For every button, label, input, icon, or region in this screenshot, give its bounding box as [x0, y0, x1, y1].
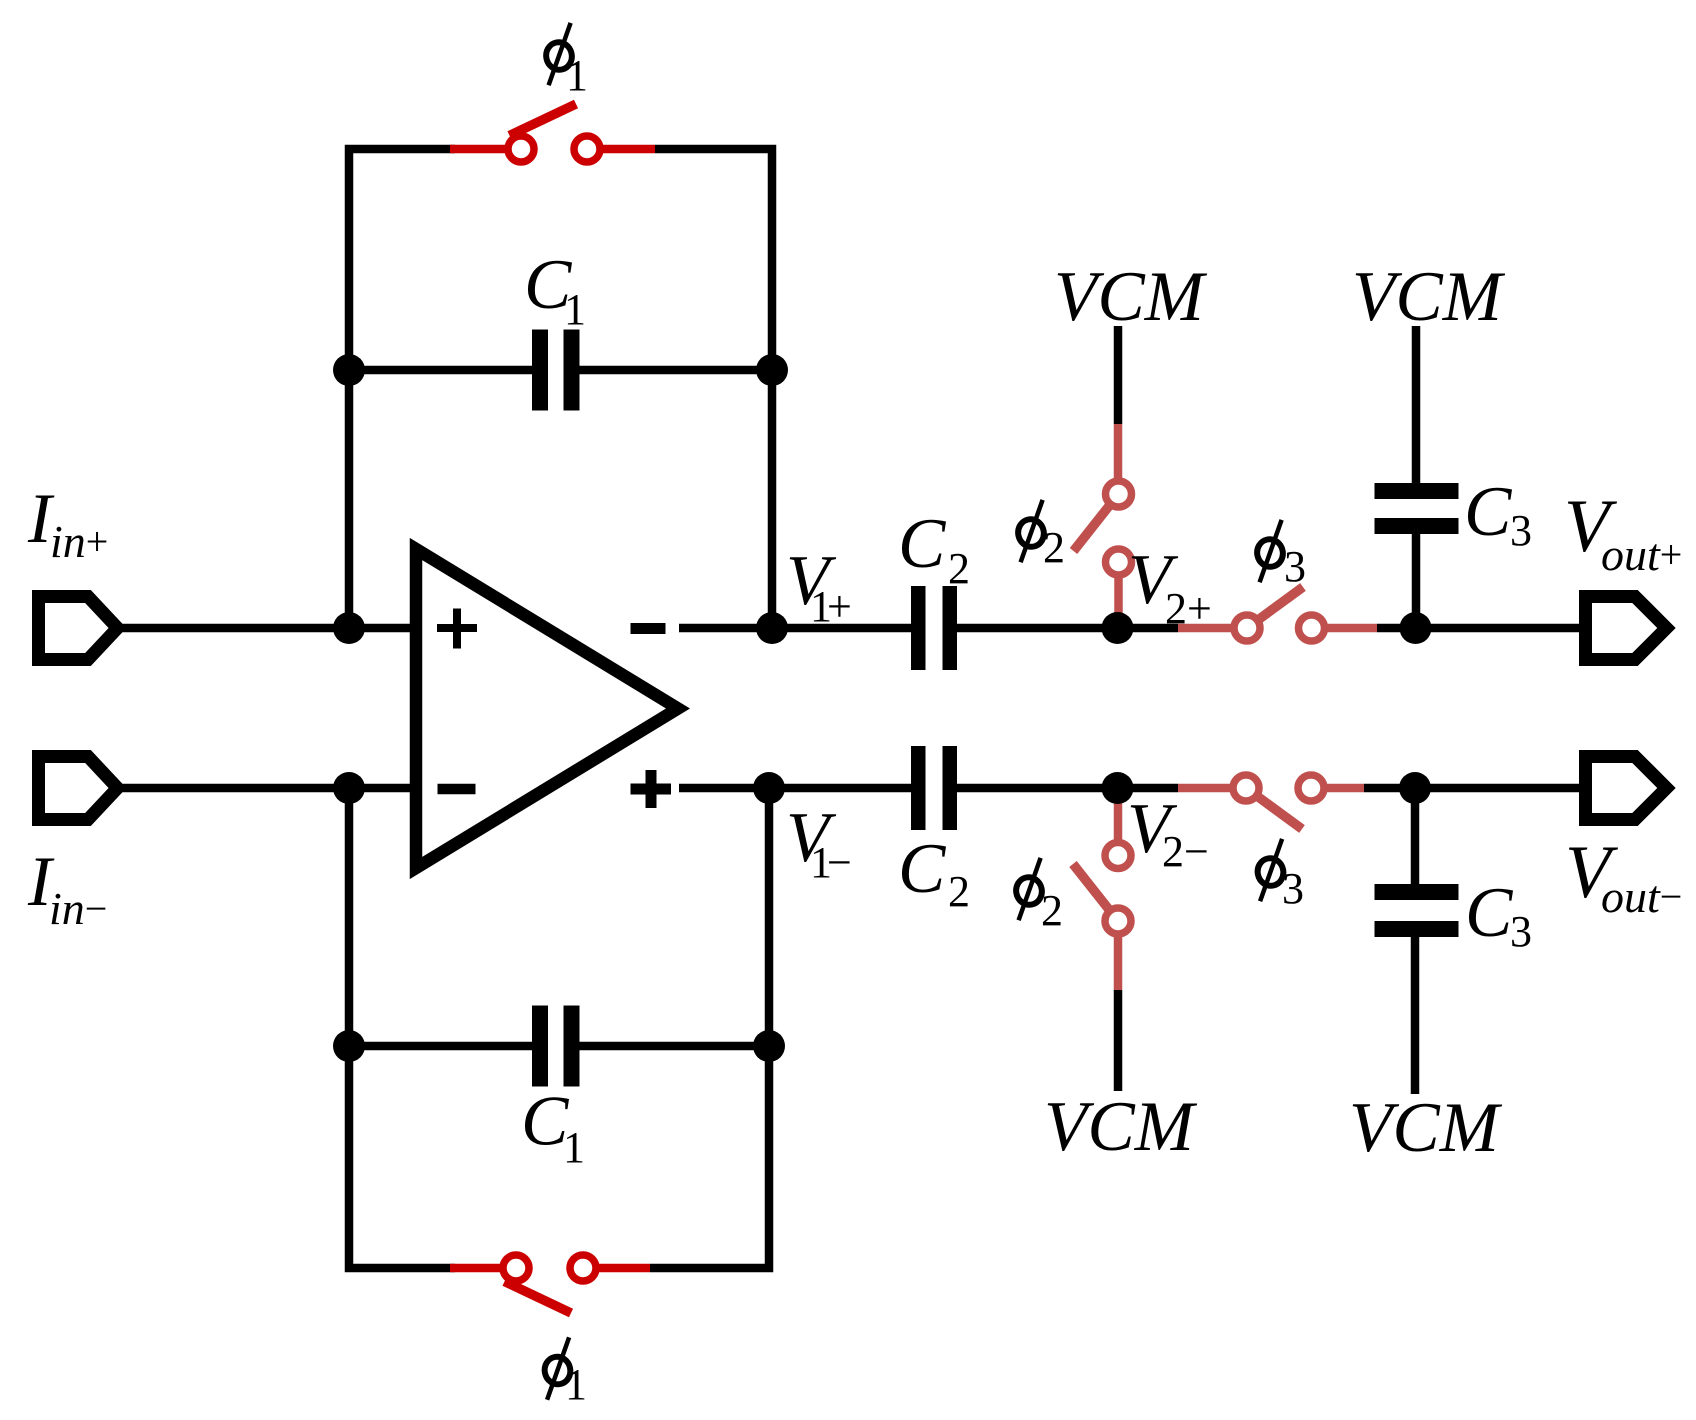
op-amp output polarity plus (bottom): [631, 770, 672, 808]
wire: bottom feedback right vertical and bottom-right segment: [650, 784, 769, 1268]
switch S2a (phi2, top): [1074, 481, 1132, 575]
wire: top C1 branch left: [349, 366, 532, 375]
wire: red stub phi3 top to output node: [1312, 624, 1378, 633]
node V1-: [753, 772, 785, 804]
svg-text:C: C: [898, 505, 947, 583]
svg-text:3: 3: [1282, 864, 1304, 913]
svg-text:1: 1: [564, 285, 586, 334]
node: Iin- wire / feedback junction: [333, 772, 365, 804]
svg-text:1: 1: [566, 51, 588, 100]
wire: C2 top to V2+ node: [957, 624, 1178, 633]
svg-text:2: 2: [1041, 886, 1063, 935]
switch S1b (phi1, bottom feedback): [503, 1255, 596, 1313]
wire: top feedback left vertical and top-left segment: [349, 149, 455, 632]
node V1+: [756, 612, 788, 644]
node V2-: [1102, 772, 1134, 804]
svg-text:VCM: VCM: [1352, 258, 1506, 336]
switch S3a (phi3, top): [1234, 587, 1325, 641]
wire: red stub right of switch phi1 bottom: [583, 1264, 650, 1273]
wire: VCM stem to C3 top: [1412, 326, 1421, 483]
wire: op-amp top output to C2: [679, 624, 911, 633]
op-amp output polarity minus (top): [631, 623, 666, 634]
switch S3b (phi3, bottom): [1233, 775, 1324, 829]
label phi2 (bottom): [1014, 858, 1063, 935]
capacitor C3 (top): [1375, 483, 1459, 534]
wire: Iin- input to op-amp inverting input: [112, 784, 416, 793]
wire: red stem phi2 bottom to VCM: [1114, 921, 1123, 990]
node: top C1 branch left junction: [333, 354, 365, 386]
svg-text:2: 2: [948, 544, 970, 593]
wire: top C1 branch right: [580, 366, 773, 375]
node: Iin+ wire / feedback junction: [333, 612, 365, 644]
svg-text:3: 3: [1284, 542, 1306, 591]
node: bottom C1 branch right junction: [753, 1030, 785, 1062]
svg-text:3: 3: [1510, 506, 1532, 555]
wire: red stem V2- node to phi2 bottom switch: [1114, 788, 1123, 856]
wire: top feedback right vertical and top-right segment: [655, 149, 772, 632]
svg-text:C: C: [898, 830, 947, 908]
capacitor C2 (top): [911, 586, 957, 670]
label phi1 (bottom): [542, 1337, 587, 1409]
wire: red stub left of switch phi1 bottom: [450, 1264, 516, 1273]
node: Vout- junction: [1399, 772, 1431, 804]
terminal Iin+: [39, 597, 118, 660]
svg-text:2−: 2−: [1162, 827, 1209, 876]
svg-text:C: C: [1464, 473, 1513, 551]
wire: red stub right of switch phi1 top: [587, 145, 655, 154]
svg-text:in+: in+: [50, 516, 108, 567]
node V2+: [1102, 612, 1134, 644]
svg-text:in−: in−: [49, 883, 107, 934]
wire: C2 bottom to V2- node: [957, 784, 1178, 793]
capacitor C2 (bottom): [911, 746, 957, 830]
svg-text:C: C: [1465, 874, 1514, 952]
svg-text:1−: 1−: [810, 838, 852, 887]
wire: phi3 bottom to Vout- terminal: [1364, 784, 1583, 793]
svg-text:VCM: VCM: [1044, 1088, 1198, 1166]
svg-text:VCM: VCM: [1054, 258, 1208, 336]
wire: bottom feedback left vertical and bottom-left segment: [349, 784, 455, 1268]
svg-text:3: 3: [1510, 907, 1532, 956]
capacitor C1 (bottom feedback): [532, 1006, 580, 1087]
wire: phi3 top to Vout+ terminal: [1377, 624, 1583, 633]
wire: VCM stem top middle: [1114, 326, 1123, 424]
wire: red stub phi3 bottom to output node: [1311, 784, 1364, 793]
wire: bottom C1 branch right: [580, 1042, 770, 1051]
wire: VCM stem bottom middle: [1114, 990, 1123, 1091]
op-amp U1: [416, 549, 678, 868]
label phi3 (top): [1255, 520, 1306, 591]
wire: red stub left of switch phi1 top: [450, 145, 521, 154]
svg-text:2: 2: [1043, 523, 1065, 572]
capacitor C1 (top feedback): [532, 330, 580, 411]
svg-text:2: 2: [948, 867, 970, 916]
svg-text:1: 1: [563, 1123, 585, 1172]
capacitor C3 (bottom): [1375, 884, 1459, 937]
wire: bottom C1 branch left: [349, 1042, 532, 1051]
switch S2b (phi2, bottom): [1073, 843, 1131, 935]
terminal Iin-: [39, 757, 118, 820]
wire: red stem to phi2 top switch: [1114, 424, 1123, 494]
terminal Vout-: [1586, 757, 1667, 820]
wire: C3 top to output node: [1412, 534, 1421, 628]
label phi1 (top): [544, 23, 588, 100]
svg-text:1+: 1+: [810, 582, 852, 631]
label phi2 (top): [1016, 500, 1065, 572]
node: Vout+ junction: [1400, 612, 1432, 644]
terminal Vout+: [1586, 597, 1667, 660]
node: top C1 branch right junction: [756, 354, 788, 386]
wire: red stem phi2 top to V2+ node: [1114, 562, 1123, 628]
wire: Iin+ input to op-amp non-inverting input: [112, 624, 416, 633]
wire: C3 bottom to VCM: [1411, 937, 1420, 1094]
wire: red stub V2+ to phi3 top: [1178, 624, 1247, 633]
wire: red stub V2- to phi3 bottom: [1178, 784, 1246, 793]
svg-text:out+: out+: [1601, 529, 1682, 580]
svg-text:VCM: VCM: [1349, 1089, 1503, 1167]
svg-text:1: 1: [565, 1360, 587, 1409]
switch S1a (phi1, top feedback): [508, 104, 600, 162]
wire: C3 bottom stem from output node: [1411, 788, 1420, 884]
svg-text:out−: out−: [1601, 871, 1682, 922]
label phi3 (bottom): [1255, 839, 1304, 913]
node: bottom C1 branch left junction: [333, 1030, 365, 1062]
wire: op-amp bottom output to C2: [679, 784, 911, 793]
